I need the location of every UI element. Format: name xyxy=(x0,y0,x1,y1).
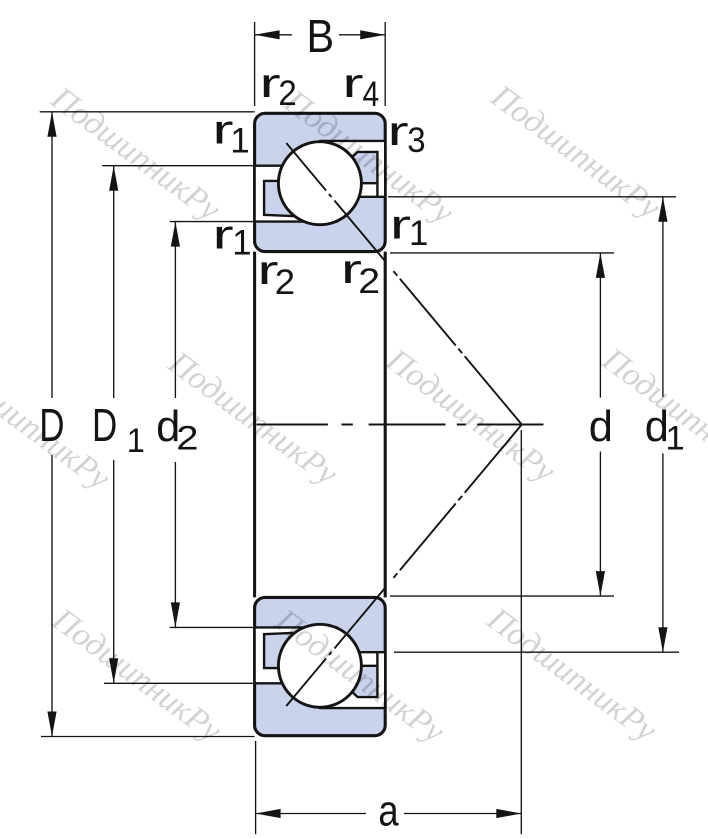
dimension D line + arrows xyxy=(51,112,53,398)
label r3 upper right xyxy=(387,109,425,160)
label r1 lower left xyxy=(212,213,251,263)
raceway channel (white gap between rings) xyxy=(255,141,386,222)
bore line left xyxy=(253,252,256,598)
dimension D1 extension lines xyxy=(102,165,254,167)
label r2 bottom left xyxy=(257,248,295,302)
svg-text:D: D xyxy=(92,399,117,451)
svg-text:a: a xyxy=(378,787,399,835)
bearing upper section xyxy=(255,113,522,424)
dimension B line + arrows xyxy=(255,34,292,36)
dimension d line + arrows xyxy=(599,253,601,398)
svg-text:r: r xyxy=(390,203,411,248)
svg-text:r: r xyxy=(342,61,363,106)
dimension D extension lines xyxy=(40,111,255,113)
inner ring left shoulder piece xyxy=(264,181,300,217)
dimension a line + arrows xyxy=(256,813,366,815)
svg-text:ПодшипникРу: ПодшипникРу xyxy=(480,600,664,749)
svg-text:3: 3 xyxy=(407,121,425,160)
svg-text:1: 1 xyxy=(127,422,145,460)
svg-text:2: 2 xyxy=(358,261,380,300)
label d1 xyxy=(645,403,685,457)
svg-text:r: r xyxy=(387,109,408,154)
label r4 top right xyxy=(342,61,379,113)
inner ring right shoulder piece xyxy=(345,152,377,183)
dimension d2 line + arrows xyxy=(174,222,176,398)
ball xyxy=(278,142,361,225)
label r2 top left xyxy=(259,61,296,113)
horizontal axis center line xyxy=(257,424,544,426)
svg-text:2: 2 xyxy=(176,418,198,457)
dimension B extension lines xyxy=(254,22,256,106)
svg-text:r: r xyxy=(212,213,233,258)
dimension d1 extension lines xyxy=(388,196,676,198)
contact angle center line xyxy=(286,143,522,425)
dimension a extension lines xyxy=(255,741,257,834)
label r2 bottom right xyxy=(341,247,380,301)
svg-text:ПодшипникРу: ПодшипникРу xyxy=(483,77,667,226)
svg-text:ПодшипникРу: ПодшипникРу xyxy=(43,79,227,228)
dimension D1 line + arrows xyxy=(113,166,115,398)
cage edge line right xyxy=(376,183,378,197)
svg-text:1: 1 xyxy=(232,224,251,263)
dimension d2 extension lines xyxy=(170,221,255,223)
svg-text:2: 2 xyxy=(275,263,295,302)
dimension d extension lines xyxy=(390,252,614,254)
outer+inner ring block (blue) xyxy=(255,113,386,251)
label d2 xyxy=(156,403,198,457)
svg-text:1: 1 xyxy=(230,122,249,161)
svg-text:ПодшипникРу: ПодшипникРу xyxy=(45,600,229,749)
dimension d1 line + arrows xyxy=(662,197,664,397)
svg-text:B: B xyxy=(307,11,335,63)
label r1 upper left xyxy=(212,108,249,161)
bore line right xyxy=(384,252,387,598)
label D1 xyxy=(92,399,145,460)
svg-text:4: 4 xyxy=(363,75,380,114)
label r1 right xyxy=(390,203,429,254)
svg-text:d: d xyxy=(589,403,613,451)
bearing lower section (mirror) xyxy=(255,425,522,736)
